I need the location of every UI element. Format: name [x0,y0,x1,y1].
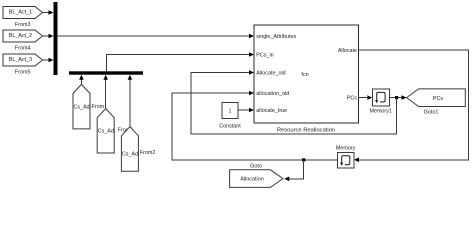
wire PCs output to Memory1 [359,95,373,100]
svg-text:Constant: Constant [219,124,241,130]
from block From (vertical tag Cs_Ad) [73,84,105,128]
svg-text:Goto: Goto [250,163,262,169]
mux Mux (vertical bar) [54,2,58,75]
svg-text:Allocation: Allocation [240,177,263,183]
wire From2 to Mux1 [128,75,133,127]
junction node at Memory output [302,158,305,161]
svg-text:From3: From3 [15,22,31,28]
goto block Goto1 (PCs) [407,89,466,116]
from block From1 (vertical tag Cs_Ad) [97,109,133,153]
wire From5 to Mux [43,58,54,63]
svg-text:BL_Act_2: BL_Act_2 [9,33,32,39]
wire Allocate output to Memory input [354,50,469,162]
from block From5 [3,54,43,76]
svg-text:Memory: Memory [336,145,356,151]
svg-text:PCs: PCs [347,96,357,102]
goto block Goto (Allocation) [230,163,283,187]
memory block Memory1 [369,89,391,115]
svg-text:fcn: fcn [301,72,308,78]
svg-text:From4: From4 [15,46,31,52]
svg-text:PCs: PCs [433,96,443,102]
constant block Constant value 1 [219,103,241,130]
svg-text:allocate_true: allocate_true [256,108,287,114]
wire Mux1 output to PCs_in [107,52,255,71]
svg-text:single_Attributes: single_Attributes [256,34,296,40]
wire From to Mux1 [79,75,84,85]
svg-text:Cs_Ad: Cs_Ad [122,151,138,157]
wire From1 to Mux1 [103,75,108,109]
svg-text:PCs_in: PCs_in [256,53,273,59]
subsystem U1 Resource Reallocation [254,25,359,134]
wire From3 to Mux [43,10,54,15]
wire Constant to allocate_true [238,108,254,113]
svg-text:Memory1: Memory1 [369,109,391,115]
svg-text:Cs_Ad: Cs_Ad [74,104,90,110]
svg-text:From: From [92,104,105,110]
svg-text:BL_Act_3: BL_Act_3 [9,57,32,63]
wire Mux output to single_Attributes [58,34,255,39]
svg-text:Allocate: Allocate [338,48,357,54]
wire Memory output to allocation_old (with branch to Goto) [172,91,337,160]
from block From3 [3,7,43,29]
wire Memory1 output to Goto1 (with branch to Allocate_old) [389,95,406,100]
svg-text:BL_Act_1: BL_Act_1 [9,9,32,15]
wire From4 to Mux [43,34,54,39]
from block From2 (vertical tag Cs_Ad) [121,127,155,172]
svg-text:Allocate_old: Allocate_old [256,71,285,77]
memory block Memory [336,145,356,168]
mux Mux1 (horizontal bar) [69,71,143,74]
junction node at Memory1 output [395,96,398,99]
svg-text:From5: From5 [15,70,31,76]
svg-text:1: 1 [229,109,232,115]
wire junction to Allocate_old [191,70,397,134]
wire junction to Goto [284,160,303,181]
svg-text:Goto1: Goto1 [424,110,439,116]
from block From4 [3,30,43,52]
svg-text:Resource Reallocation: Resource Reallocation [277,128,335,134]
svg-text:allocation_old: allocation_old [256,91,289,97]
svg-text:Cs_Ad: Cs_Ad [98,129,114,135]
svg-text:From2: From2 [140,150,156,156]
